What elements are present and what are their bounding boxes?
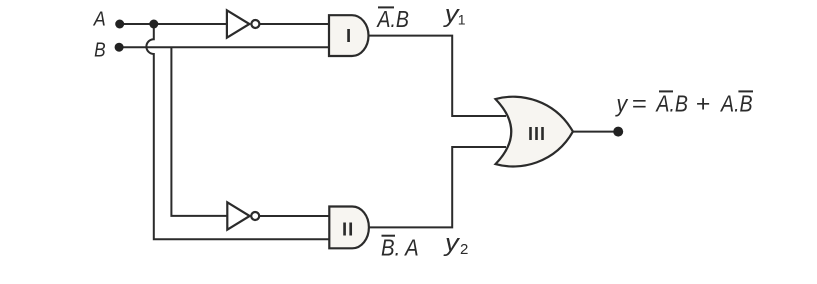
svg-text:B: B	[94, 38, 106, 61]
wire B branch vertical to NOT2	[171, 47, 227, 216]
svg-text:I: I	[346, 25, 351, 46]
label y2	[443, 230, 469, 258]
svg-text:2: 2	[460, 241, 468, 258]
wire NOT1 output to AND1	[259, 23, 330, 25]
svg-text:B. A: B. A	[381, 235, 419, 261]
inverter NOT2 (bottom)	[227, 202, 259, 229]
and-gate U1 (I)	[329, 15, 369, 56]
inverter NOT1 (top)	[227, 10, 260, 37]
wire NOT2 output to AND2	[259, 215, 330, 217]
svg-text:A: A	[92, 7, 106, 30]
svg-text:y: y	[443, 230, 461, 257]
svg-text:A.B: A.B	[655, 91, 688, 117]
label A-bar.B with overbar	[376, 6, 409, 32]
label B-bar.A with overbar	[381, 235, 419, 261]
terminal dot B	[115, 43, 124, 52]
wire A branch vertical with hop over B	[146, 24, 330, 239]
equation y = A-bar.B + A.B-bar	[615, 91, 753, 117]
output terminal dot y	[613, 127, 623, 137]
wire AND2 output to OR bottom input (y2)	[369, 147, 506, 227]
wire B input horizontal	[119, 46, 330, 48]
junction node on A line	[149, 20, 158, 29]
svg-text:=: =	[632, 91, 647, 117]
svg-text:II: II	[342, 218, 354, 239]
wire A input horizontal	[120, 23, 227, 25]
svg-text:A.B: A.B	[376, 6, 409, 32]
and-gate U2 (II)	[329, 207, 369, 249]
svg-text:A.B: A.B	[719, 91, 752, 117]
svg-text:y: y	[615, 91, 629, 117]
terminal dot A	[115, 20, 124, 29]
label y1	[443, 1, 466, 28]
wire AND1 output to OR top input (y1)	[368, 36, 506, 116]
wire OR output	[573, 131, 618, 133]
svg-text:1: 1	[458, 11, 466, 27]
svg-text:III: III	[528, 124, 546, 144]
or-gate U3 (III)	[496, 97, 573, 167]
svg-text:+: +	[696, 91, 711, 117]
